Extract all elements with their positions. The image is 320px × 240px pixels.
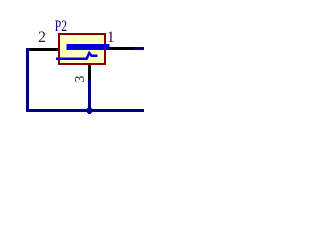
svg-text:2: 2 (38, 29, 46, 46)
wire: bottom horizontal rail (26, 109, 144, 112)
pin 3 of P2 (bottom vertical pin) (88, 64, 91, 81)
resistor bar of P2 (thick blue bar) (67, 44, 110, 50)
wire: left vertical from pin 2 down to bottom rail (26, 48, 29, 111)
wire: vertical from pin 3 through junction (88, 80, 91, 114)
potentiometer P2 body outline (maroon border) (58, 33, 106, 65)
pin 2 of P2 (left horizontal pin) (27, 48, 59, 51)
wiper arrow of P2 (56, 53, 98, 59)
pin 1 of P2 (right horizontal pin) (106, 47, 134, 50)
svg-text:P2: P2 (55, 17, 67, 35)
junction dot at node (86, 107, 92, 113)
potentiometer P2 body fill (pale yellow) (60, 35, 104, 63)
svg-text:3: 3 (72, 75, 87, 82)
wire: right horizontal from pin 1 to image edge (134, 47, 144, 50)
svg-text:1: 1 (107, 29, 115, 46)
